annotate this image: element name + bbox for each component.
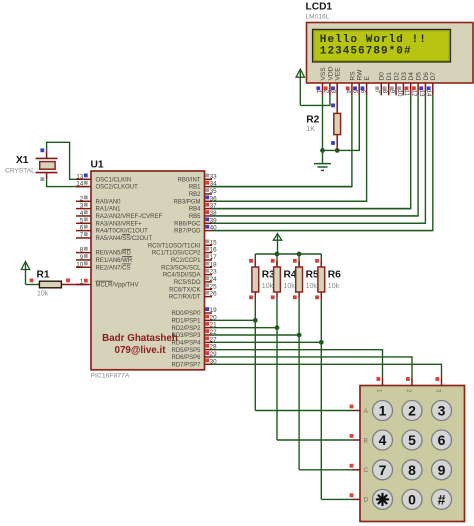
svg-text:RD6/PSP6: RD6/PSP6 xyxy=(171,355,201,361)
wire row C to keypad xyxy=(299,469,352,471)
U1 pin 2 RA0/AN0 xyxy=(76,195,121,205)
U1 pin 10 RE2/AN7/CS xyxy=(76,261,131,271)
svg-text:8: 8 xyxy=(408,462,416,478)
svg-text:RD7/PSP7: RD7/PSP7 xyxy=(171,362,201,368)
keypad button 2 xyxy=(402,401,422,421)
svg-text:RS: RS xyxy=(349,71,356,81)
wire RB5 run xyxy=(212,215,418,217)
LCD pin 14 D7 xyxy=(425,72,437,97)
svg-text:Hello World !!: Hello World !! xyxy=(320,34,427,46)
svg-text:RB2: RB2 xyxy=(189,192,201,198)
LCD pin 2 VDD xyxy=(322,66,334,95)
wire VDD to power xyxy=(300,95,330,105)
svg-text:9: 9 xyxy=(80,254,84,261)
svg-text:LCD1: LCD1 xyxy=(306,2,333,13)
svg-text:D1: D1 xyxy=(386,72,393,81)
svg-text:D2: D2 xyxy=(393,72,400,81)
resistor R1 xyxy=(30,279,88,288)
LCD pin 10 D3 xyxy=(396,72,408,97)
svg-text:1K: 1K xyxy=(306,126,315,133)
resistor R3 xyxy=(249,254,259,299)
svg-text:RA3/AN3/VREF+: RA3/AN3/VREF+ xyxy=(96,221,143,227)
svg-text:14: 14 xyxy=(76,181,84,188)
svg-text:3: 3 xyxy=(434,389,441,393)
U1 pin 40 RB7/PGD xyxy=(174,225,217,235)
svg-text:26: 26 xyxy=(210,291,218,298)
wire pull-up rail xyxy=(255,253,321,255)
wire RB6 run xyxy=(212,222,425,224)
svg-text:RA5/AN4/SS/C2OUT: RA5/AN4/SS/C2OUT xyxy=(96,236,153,242)
keypad body xyxy=(360,386,465,522)
LCD pin 9 D2 xyxy=(388,72,400,96)
U1 pin 22 RD3/PSP3 xyxy=(171,329,217,339)
LCD pin 13 D6 xyxy=(418,72,430,97)
U1 pin 30 RD7/PSP7 xyxy=(171,358,217,368)
node row B junction xyxy=(275,325,280,330)
svg-text:OSC1/CLKIN: OSC1/CLKIN xyxy=(96,177,132,183)
overline RD xyxy=(122,248,131,250)
svg-text:23: 23 xyxy=(210,269,218,276)
LCD pin 7 D0 xyxy=(374,72,386,96)
U1 pin 7 RA5/AN4/SS/C2OUT xyxy=(76,232,153,242)
svg-text:1: 1 xyxy=(379,403,387,419)
U1 part number xyxy=(91,373,130,380)
U1 pin 5 RA3/AN3/VREF+ xyxy=(76,217,142,227)
svg-text:10k: 10k xyxy=(37,291,49,298)
svg-text:RC6/TX/CK: RC6/TX/CK xyxy=(169,287,200,293)
keypad button # xyxy=(432,489,452,509)
wire X1 top to OSC1 xyxy=(47,142,88,179)
U1 pin 18 RC3/SCK/SCL xyxy=(161,261,217,271)
svg-text:25: 25 xyxy=(210,283,218,290)
U1 pin 13 OSC1/CLKIN xyxy=(76,173,131,183)
overline CS xyxy=(122,263,131,265)
svg-text:11: 11 xyxy=(403,90,409,97)
wire row D riser xyxy=(320,298,322,500)
svg-text:10: 10 xyxy=(76,261,84,268)
wire E to RB3 xyxy=(212,95,367,201)
svg-text:D7: D7 xyxy=(430,72,437,81)
keypad row pin B xyxy=(350,434,369,444)
svg-text:OSC2/CLKOUT: OSC2/CLKOUT xyxy=(96,185,139,191)
LCD screen xyxy=(313,29,451,62)
svg-text:10k: 10k xyxy=(284,283,296,290)
U1 pin 36 RB3/PGM xyxy=(173,195,217,205)
U1 pin 15 RC0/T1OSO/T1CKI xyxy=(148,239,217,249)
U1 pin 38 RB5 xyxy=(189,210,217,220)
U1 pin 16 RC1/T1OSI/CCP2 xyxy=(152,247,217,257)
svg-text:Badr Ghatasheh: Badr Ghatasheh xyxy=(102,333,178,344)
U1 pin 4 RA2/AN2/VREF-/CVREF xyxy=(76,210,163,220)
svg-text:RB6/PGC: RB6/PGC xyxy=(174,221,201,227)
U1 pin 1 MCLR/Vpp/THV xyxy=(76,279,139,289)
svg-text:7: 7 xyxy=(80,232,84,239)
keypad row pin C xyxy=(350,464,369,474)
U1 pin 8 RE0/AN5/RD xyxy=(76,247,132,257)
svg-text:8: 8 xyxy=(80,247,84,254)
svg-text:D0: D0 xyxy=(379,72,386,81)
svg-text:RE1/AN6/WR: RE1/AN6/WR xyxy=(96,258,133,264)
svg-text:RC1/T1OSI/CCP2: RC1/T1OSI/CCP2 xyxy=(152,251,201,257)
U1 pin 9 RE1/AN6/WR xyxy=(76,254,133,264)
svg-text:RE0/AN5/RD: RE0/AN5/RD xyxy=(96,251,132,257)
node R2-ground junction xyxy=(335,148,340,153)
svg-text:R1: R1 xyxy=(37,270,50,281)
keypad button 7 xyxy=(373,460,393,480)
R5 label xyxy=(306,270,319,291)
wire D6 to RB6 xyxy=(212,95,425,223)
R2 label xyxy=(306,114,319,133)
keypad row pin A xyxy=(350,405,369,415)
resistor R5 xyxy=(293,254,303,299)
U1 pin 37 RB4 xyxy=(189,203,217,213)
svg-text:RA0/AN0: RA0/AN0 xyxy=(96,199,122,205)
node row D junction xyxy=(319,340,324,345)
resistor R2 xyxy=(331,83,340,150)
wire RB1 run xyxy=(212,186,352,188)
U1 pin 17 RC2/CCP1 xyxy=(171,254,217,264)
R1 label xyxy=(37,270,50,298)
svg-text:3: 3 xyxy=(80,203,84,210)
svg-text:RC0/T1OSO/T1CKI: RC0/T1OSO/T1CKI xyxy=(148,243,201,249)
svg-text:6: 6 xyxy=(80,225,84,232)
U1 pin 21 RD2/PSP2 xyxy=(171,322,217,332)
keypad button 9 xyxy=(432,460,452,480)
wire row C riser xyxy=(298,298,300,470)
U1 pin 34 RB1 xyxy=(189,181,217,191)
svg-text:2: 2 xyxy=(408,403,416,419)
svg-text:RB3/PGM: RB3/PGM xyxy=(173,199,200,205)
U1 pin 6 RA4/T0CKI/C1OUT xyxy=(76,225,148,235)
overline WR xyxy=(122,256,132,258)
ground xyxy=(314,150,331,170)
U1 pin 29 RD6/PSP6 xyxy=(171,351,217,361)
svg-text:7: 7 xyxy=(374,90,380,94)
svg-text:RW: RW xyxy=(357,69,364,81)
LCD pin 8 D1 xyxy=(381,72,393,96)
power symbol R1 xyxy=(21,262,29,285)
keypad button 0 xyxy=(402,489,422,509)
wire RD7 to column 3 xyxy=(212,364,442,378)
U1 pin 33 RB0/INT xyxy=(177,173,217,183)
svg-text:RD0/PSP0: RD0/PSP0 xyxy=(171,311,201,317)
svg-text:C: C xyxy=(364,467,369,474)
svg-text:A: A xyxy=(364,408,369,415)
svg-text:10k: 10k xyxy=(262,283,274,290)
svg-text:4: 4 xyxy=(80,210,84,217)
wire RB7 run xyxy=(212,230,433,232)
crystal X1 xyxy=(36,148,58,181)
U1 pin 19 RD0/PSP0 xyxy=(171,307,217,317)
U1 label xyxy=(91,160,104,171)
wire RD6 to column 2 xyxy=(212,357,412,378)
keypad column pin 1 xyxy=(375,377,382,393)
svg-text:RC5/SDO: RC5/SDO xyxy=(174,280,201,286)
svg-text:VDD: VDD xyxy=(327,66,334,80)
keypad button 4 xyxy=(373,430,393,450)
svg-text:10k: 10k xyxy=(306,283,318,290)
wire ground rail xyxy=(323,95,360,150)
svg-text:1: 1 xyxy=(315,90,321,94)
power symbol pull-ups xyxy=(273,234,281,254)
R4 label xyxy=(284,270,297,291)
LCD pin 3 VEE xyxy=(330,67,342,96)
overline MCLR xyxy=(96,280,113,282)
LCD pin 5 RW xyxy=(352,69,364,95)
svg-text:2: 2 xyxy=(80,195,84,202)
U1 pin 39 RB6/PGC xyxy=(174,217,217,227)
keypad row pin D xyxy=(350,493,369,503)
keypad button 3 xyxy=(432,401,452,421)
svg-text:RD2/PSP2: RD2/PSP2 xyxy=(171,326,201,332)
node VSS-ground junction xyxy=(320,148,325,153)
svg-text:D6: D6 xyxy=(423,72,430,81)
svg-text:2: 2 xyxy=(405,389,412,393)
svg-text:PIC16F877A: PIC16F877A xyxy=(91,373,130,380)
wire RD3 run xyxy=(212,334,299,336)
svg-text:RE2/AN7/CS: RE2/AN7/CS xyxy=(96,265,131,271)
svg-text:15: 15 xyxy=(210,239,218,246)
svg-text:R4: R4 xyxy=(284,270,297,281)
svg-text:1: 1 xyxy=(80,279,84,286)
node row A junction xyxy=(253,318,258,323)
U1 pin 20 RD1/PSP1 xyxy=(171,314,217,324)
LCD LM016L body xyxy=(307,23,474,84)
svg-text:9: 9 xyxy=(438,462,446,478)
svg-text:RD1/PSP1: RD1/PSP1 xyxy=(171,318,201,324)
svg-text:0: 0 xyxy=(408,491,416,507)
wire D5 to RB5 xyxy=(212,95,418,216)
U1 pin 27 RD4/PSP4 xyxy=(171,336,217,346)
U1 pin 35 RB2 xyxy=(189,188,217,198)
wire RB3 run xyxy=(212,200,367,202)
LCD text line 1 xyxy=(320,34,427,46)
svg-text:4: 4 xyxy=(379,432,387,448)
svg-text:6: 6 xyxy=(438,432,446,448)
svg-text:16: 16 xyxy=(210,247,218,254)
svg-text:RA4/T0CKI/C1OUT: RA4/T0CKI/C1OUT xyxy=(96,229,149,235)
wire RD4 run xyxy=(212,341,321,343)
wire row B riser xyxy=(276,298,278,441)
U1 pin 24 RC5/SDO xyxy=(174,276,217,286)
U1 signature xyxy=(102,333,178,356)
node row C junction xyxy=(297,333,302,338)
svg-text:D5: D5 xyxy=(416,72,423,81)
R3 label xyxy=(262,270,275,291)
svg-text:RA1/AN1: RA1/AN1 xyxy=(96,207,122,213)
svg-text:1: 1 xyxy=(375,389,382,393)
wire RD2 run xyxy=(212,327,277,329)
U1 pin 23 RC4/SDI/SDA xyxy=(163,269,217,279)
overline SS xyxy=(122,234,130,236)
keypad button 8 xyxy=(402,460,422,480)
U1 pin 3 RA1/AN1 xyxy=(76,203,121,213)
svg-text:13: 13 xyxy=(76,173,84,180)
wire row D to keypad xyxy=(321,498,352,500)
svg-text:RB7/PGD: RB7/PGD xyxy=(174,229,201,235)
LCD pin 6 E xyxy=(359,76,371,96)
svg-text:24: 24 xyxy=(210,276,218,283)
wire RB4 run xyxy=(212,208,411,210)
LCD pin 4 RS xyxy=(344,71,356,96)
svg-text:4: 4 xyxy=(344,90,350,94)
wire D7 to RB7 xyxy=(212,95,433,230)
svg-text:RB0/INT: RB0/INT xyxy=(177,177,200,183)
svg-text:19: 19 xyxy=(210,307,218,314)
svg-text:B: B xyxy=(364,437,369,444)
wire RS to RB1 xyxy=(212,95,352,186)
node rail-R5 junction xyxy=(297,252,302,257)
resistor R6 xyxy=(315,254,325,299)
svg-text:17: 17 xyxy=(210,254,218,261)
LCD pin 11 D4 xyxy=(403,72,415,97)
svg-text:RC4/SDI/SDA: RC4/SDI/SDA xyxy=(163,273,201,279)
U1 pin 25 RC6/TX/CK xyxy=(169,283,217,293)
svg-text:RA2/AN2/VREF-/CVREF: RA2/AN2/VREF-/CVREF xyxy=(96,214,163,220)
PIC16F877A U1 body xyxy=(91,171,205,370)
LCD1 label xyxy=(306,2,333,21)
resistor R4 xyxy=(271,254,281,299)
U1 pin 28 RD5/PSP5 xyxy=(171,344,217,354)
svg-text:RC7/RX/DT: RC7/RX/DT xyxy=(169,295,201,301)
svg-text:3: 3 xyxy=(438,403,446,419)
wire VSS to ground xyxy=(322,95,324,150)
svg-text:RC2/CCP1: RC2/CCP1 xyxy=(171,258,201,264)
svg-text:10k: 10k xyxy=(328,283,340,290)
svg-text:#: # xyxy=(438,491,446,507)
wire RD5 to column 1 xyxy=(212,350,383,378)
svg-text:R6: R6 xyxy=(328,270,341,281)
svg-text:E: E xyxy=(364,76,371,81)
svg-text:5: 5 xyxy=(80,217,84,224)
svg-text:D4: D4 xyxy=(408,72,415,81)
X1 label xyxy=(5,155,35,175)
svg-text:RD3/PSP3: RD3/PSP3 xyxy=(171,333,201,339)
svg-text:RD4/PSP4: RD4/PSP4 xyxy=(171,340,201,346)
svg-text:10: 10 xyxy=(396,90,402,97)
svg-text:D3: D3 xyxy=(401,72,408,81)
wire D4 to RB4 xyxy=(212,95,411,208)
svg-text:R5: R5 xyxy=(306,270,319,281)
svg-text:CRYSTAL: CRYSTAL xyxy=(5,168,35,175)
svg-text:RB4: RB4 xyxy=(189,207,201,213)
keypad button 5 xyxy=(402,430,422,450)
LCD text line 2 xyxy=(320,46,412,58)
node rail-R4 junction xyxy=(275,252,280,257)
wire power to R1 xyxy=(26,284,40,286)
svg-text:RB1: RB1 xyxy=(189,185,201,191)
svg-text:35: 35 xyxy=(210,188,218,195)
LCD pin 12 D5 xyxy=(411,72,423,97)
svg-text:123456789*0#: 123456789*0# xyxy=(320,46,412,58)
LCD pin 1 VSS xyxy=(315,67,327,96)
svg-text:LM016L: LM016L xyxy=(306,14,330,21)
R6 label xyxy=(328,270,341,291)
svg-text:RB5: RB5 xyxy=(189,214,201,220)
wire row B to keypad xyxy=(277,439,353,441)
keypad button 1 xyxy=(373,401,393,421)
svg-text:079@live.it: 079@live.it xyxy=(115,345,167,356)
svg-text:D: D xyxy=(364,497,369,504)
U1 pin 26 RC7/RX/DT xyxy=(169,291,217,301)
svg-text:33: 33 xyxy=(210,173,218,180)
keypad column pin 3 xyxy=(434,377,441,393)
svg-text:7: 7 xyxy=(379,462,387,478)
svg-text:VSS: VSS xyxy=(320,67,327,81)
keypad column pin 2 xyxy=(405,377,412,393)
svg-text:18: 18 xyxy=(210,261,218,268)
keypad button * xyxy=(373,489,393,509)
U1 pin 14 OSC2/CLKOUT xyxy=(76,181,138,191)
svg-text:RD5/PSP5: RD5/PSP5 xyxy=(171,348,201,354)
svg-text:MCLR/Vpp/THV: MCLR/Vpp/THV xyxy=(96,283,139,289)
svg-text:5: 5 xyxy=(408,432,416,448)
svg-text:VEE: VEE xyxy=(335,67,342,81)
wire row A riser xyxy=(254,298,256,411)
svg-text:X1: X1 xyxy=(16,155,29,166)
wire row A to keypad xyxy=(255,410,352,412)
svg-text:R2: R2 xyxy=(306,114,319,125)
wire X1 bottom to OSC2 xyxy=(47,179,88,186)
svg-text:U1: U1 xyxy=(91,160,104,171)
svg-text:RC3/SCK/SCL: RC3/SCK/SCL xyxy=(161,265,201,271)
power symbol VDD xyxy=(296,69,304,105)
wire RD1 run xyxy=(212,319,255,321)
keypad button 6 xyxy=(432,430,452,450)
